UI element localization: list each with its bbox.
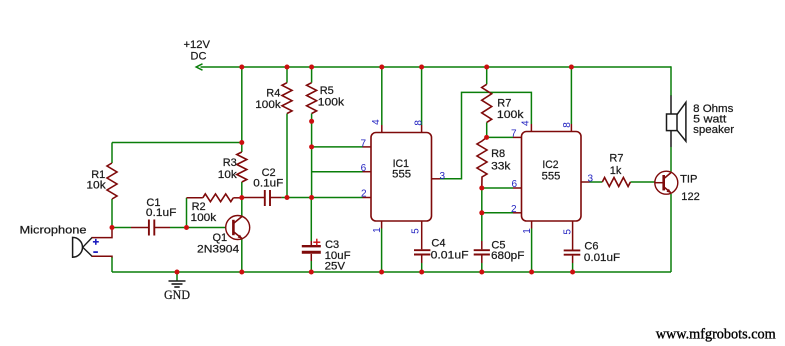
microphone symbol bbox=[73, 237, 92, 257]
resistor R1 bbox=[107, 163, 117, 199]
node R7/R8 pin7 bbox=[484, 135, 489, 140]
wire R1 branch vertical from top rail bbox=[241, 67, 243, 143]
wire C6 bottom lead bbox=[572, 256, 574, 263]
svg-text:+12V: +12V bbox=[184, 39, 211, 51]
node rail-R1 bbox=[239, 65, 244, 70]
node C1/R2/Q1 base bbox=[184, 225, 189, 230]
wire IC2 pin7 bbox=[487, 136, 513, 138]
node Q1 emitter bbox=[239, 270, 244, 275]
svg-text:0.1uF: 0.1uF bbox=[253, 178, 283, 190]
node rail-IC2p8 bbox=[569, 65, 574, 70]
wire IC1 pin6 bbox=[312, 171, 363, 173]
svg-text:6: 6 bbox=[361, 163, 367, 174]
svg-text:R3: R3 bbox=[223, 157, 237, 169]
svg-text:www.mfgrobots.com: www.mfgrobots.com bbox=[656, 327, 776, 343]
mic plus terminal bbox=[93, 239, 99, 245]
wire C1 right bbox=[155, 227, 170, 229]
resistor R8 bbox=[477, 137, 487, 188]
svg-text:4: 4 bbox=[520, 120, 531, 126]
wire IC2 pin3 stub bbox=[581, 181, 590, 183]
C3 plus sign bbox=[313, 239, 320, 246]
svg-text:100k: 100k bbox=[497, 109, 524, 121]
wire pin6 to pin2 junction link bbox=[481, 188, 483, 213]
capacitor C5 bbox=[474, 250, 490, 254]
wire horizontal to R1 top bbox=[112, 142, 242, 144]
svg-text:GND: GND bbox=[164, 288, 190, 302]
node R4/C2 bbox=[285, 195, 290, 200]
wire C1 left bbox=[112, 227, 131, 229]
wire bottom ground rail bbox=[112, 271, 671, 273]
wire R3 bottom lead bbox=[241, 182, 243, 198]
svg-text:5: 5 bbox=[562, 229, 573, 235]
node IC2 pin1 gnd bbox=[529, 270, 534, 275]
svg-text:IC2: IC2 bbox=[542, 159, 558, 171]
node rail-R7 bbox=[484, 65, 489, 70]
svg-text:R5: R5 bbox=[320, 85, 334, 97]
capacitor C6 bbox=[564, 250, 581, 254]
svg-text:8: 8 bbox=[414, 120, 425, 126]
svg-text:100k: 100k bbox=[191, 212, 217, 224]
node IC1 pin1 gnd bbox=[379, 270, 384, 275]
svg-text:1k: 1k bbox=[610, 165, 622, 177]
node GND bbox=[175, 270, 180, 275]
wire IC1 pin4 drop bbox=[381, 67, 383, 125]
resistor R5 bbox=[307, 83, 317, 114]
svg-text:7: 7 bbox=[360, 139, 366, 150]
svg-text:C6: C6 bbox=[584, 240, 598, 252]
transistor Q1 bbox=[226, 216, 250, 240]
node rail-IC1p8 bbox=[419, 65, 424, 70]
wire IC1 pin1 drop bbox=[381, 221, 383, 229]
svg-text:33k: 33k bbox=[491, 160, 511, 172]
svg-text:C4: C4 bbox=[431, 238, 445, 250]
svg-text:100k: 100k bbox=[318, 96, 345, 108]
wire TIP emitter to bottom rail bbox=[670, 194, 672, 272]
wire IC1 pin5 lead to C4 bbox=[421, 221, 423, 249]
mic minus terminal bbox=[93, 251, 98, 253]
wire GND stem bbox=[176, 272, 178, 281]
wire R1 bottom lead bbox=[111, 199, 113, 228]
svg-text:6: 6 bbox=[511, 179, 517, 190]
wire mic minus lead bbox=[92, 256, 113, 257]
wire +12V arrowhead bbox=[196, 64, 202, 70]
wire C3 bottom lead bbox=[310, 254, 312, 261]
node rail-IC1p4 bbox=[379, 65, 384, 70]
wire IC1 pin3 to IC2 pin4 bbox=[440, 92, 531, 178]
node R1/R3 branch bbox=[239, 140, 244, 145]
node C4 gnd bbox=[419, 270, 424, 275]
wire R5 top lead bbox=[311, 67, 313, 83]
svg-text:Microphone: Microphone bbox=[20, 225, 87, 237]
capacitor C2 bbox=[265, 190, 270, 206]
transistor TIP122 bbox=[655, 171, 678, 194]
wire R5 bottom lead to node bbox=[311, 114, 313, 122]
svg-text:1: 1 bbox=[372, 227, 383, 233]
wire C4 bottom lead bbox=[421, 255, 423, 263]
svg-text:R7: R7 bbox=[497, 98, 511, 110]
svg-text:TIP: TIP bbox=[680, 174, 697, 186]
wire TIP collector to speaker bbox=[670, 147, 672, 172]
svg-text:2: 2 bbox=[361, 188, 367, 199]
svg-text:0.01uF: 0.01uF bbox=[431, 250, 469, 262]
svg-text:3: 3 bbox=[440, 171, 446, 182]
node pin2 IC2/C5 bbox=[479, 210, 484, 215]
wire Q1 collector riser bbox=[241, 198, 243, 217]
svg-text:10k: 10k bbox=[218, 169, 238, 181]
svg-text:5: 5 bbox=[410, 228, 421, 234]
wire R4 bottom to pin2 node bbox=[286, 114, 288, 198]
wire R1 top lead bbox=[111, 143, 113, 164]
wire mic plus lead bbox=[92, 228, 113, 238]
node rail-R4 bbox=[285, 65, 290, 70]
svg-text:100k: 100k bbox=[255, 99, 281, 111]
op-amp IC1 555 box bbox=[371, 133, 432, 222]
wire IC2 pin5 lead to C6 bbox=[572, 221, 574, 250]
svg-text:DC: DC bbox=[191, 51, 207, 63]
svg-text:Q1: Q1 bbox=[213, 232, 228, 244]
resistor R3 bbox=[237, 152, 247, 182]
wire R2 right lead bbox=[233, 197, 242, 199]
ground bbox=[169, 281, 186, 287]
wire R2 left riser bbox=[186, 198, 188, 228]
svg-text:speaker: speaker bbox=[693, 124, 734, 136]
wire IC1 pin8 drop bbox=[421, 67, 423, 125]
wire R2 left lead bbox=[187, 197, 203, 199]
wire node to pin7 junction bbox=[311, 121, 313, 147]
speaker bbox=[667, 96, 686, 148]
svg-text:3: 3 bbox=[588, 173, 594, 184]
svg-text:2N3904: 2N3904 bbox=[197, 243, 239, 255]
wire R7 top lead from rail bbox=[486, 67, 488, 84]
wire IC2 pin2 bbox=[482, 212, 513, 214]
wire mic lower riser bbox=[111, 257, 113, 272]
wire IC2 pin3 to R7 bbox=[590, 181, 603, 183]
svg-text:R7: R7 bbox=[609, 152, 623, 164]
node pin7 bbox=[309, 144, 314, 149]
node C3 gnd bbox=[309, 270, 314, 275]
resistor R7 1k bbox=[602, 178, 630, 187]
wire pin7 junction down to pin2 junction bbox=[311, 147, 313, 198]
wire IC1 pin3 stub bbox=[432, 178, 441, 180]
wire R4 top lead bbox=[286, 67, 288, 83]
wire C2 right lead bbox=[270, 197, 281, 199]
node C6 gnd bbox=[570, 270, 575, 275]
svg-text:555: 555 bbox=[542, 171, 561, 183]
svg-text:0.01uF: 0.01uF bbox=[584, 252, 620, 264]
node R5 bottom bbox=[309, 119, 314, 124]
wire R7 bottom lead to pin7 junction bbox=[486, 122, 488, 137]
svg-text:1: 1 bbox=[522, 228, 533, 234]
op-amp IC2 555 box bbox=[522, 132, 582, 222]
wire IC1 pin2 bbox=[282, 197, 363, 199]
wire IC2 pin8 drop bbox=[570, 67, 572, 124]
wire IC1 pin7 bbox=[312, 146, 363, 148]
wire C5 top lead bbox=[481, 213, 483, 241]
svg-text:2: 2 bbox=[511, 204, 517, 215]
wire +12V top rail bbox=[201, 66, 672, 68]
svg-text:7: 7 bbox=[511, 128, 517, 139]
capacitor C1 bbox=[149, 220, 154, 236]
svg-text:25V: 25V bbox=[325, 260, 346, 272]
resistor R7 100k bbox=[482, 84, 492, 122]
svg-text:680pF: 680pF bbox=[491, 250, 525, 262]
node R8/pin6 bbox=[479, 186, 484, 191]
wire C2 left lead bbox=[242, 197, 264, 199]
capacitor C3 electrolytic bbox=[302, 246, 321, 252]
resistor R4 bbox=[282, 83, 292, 114]
svg-text:0.1uF: 0.1uF bbox=[146, 207, 177, 219]
svg-text:4: 4 bbox=[371, 119, 382, 125]
wire Q1 emitter drop bbox=[241, 239, 243, 273]
svg-text:R4: R4 bbox=[266, 87, 280, 99]
wire C3 top lead bbox=[310, 198, 312, 242]
node R2/R3/C2 bbox=[239, 195, 244, 200]
svg-text:R8: R8 bbox=[491, 148, 505, 160]
wire R7 to TIP base bbox=[630, 181, 655, 183]
wire C5 bottom lead bbox=[481, 255, 483, 263]
wire IC2 pin6 bbox=[482, 187, 513, 189]
svg-text:10k: 10k bbox=[86, 180, 106, 192]
wire R3 top lead bbox=[241, 143, 243, 153]
wire IC2 pin1 drop bbox=[531, 221, 533, 229]
node R5/C3/pin2 bbox=[309, 195, 314, 200]
node rail-R5 bbox=[309, 65, 314, 70]
svg-text:122: 122 bbox=[681, 191, 700, 203]
svg-text:8: 8 bbox=[562, 122, 573, 128]
node mic/R1 bbox=[110, 225, 115, 230]
wire right vertical rail to speaker bbox=[670, 66, 672, 96]
svg-text:555: 555 bbox=[392, 169, 411, 181]
capacitor C4 bbox=[414, 250, 430, 254]
wire Q1 base bbox=[187, 227, 226, 229]
resistor R2 bbox=[203, 194, 234, 202]
node C5 gnd bbox=[479, 270, 484, 275]
